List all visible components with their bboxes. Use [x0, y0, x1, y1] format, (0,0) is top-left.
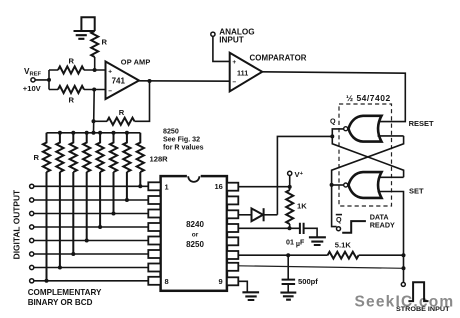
terminal output 7	[30, 265, 34, 269]
label 8250 See Fig. 32 for R values	[163, 128, 204, 152]
node	[402, 253, 406, 257]
resistor R4 feedback	[107, 108, 135, 125]
resistor 1K	[286, 190, 307, 224]
wire Qbar to terminal	[332, 185, 337, 227]
resistor ladder R8	[137, 133, 144, 187]
svg-text:V+: V+	[295, 170, 304, 179]
node	[138, 184, 142, 188]
ground	[242, 292, 259, 300]
node	[98, 225, 102, 229]
NOR gate G1	[344, 116, 382, 142]
node	[125, 198, 129, 202]
svg-text:SeekIC.com: SeekIC.com	[355, 293, 455, 310]
wire cross-coupling Qbar to G1	[332, 136, 404, 185]
resistor ladder R4	[83, 133, 90, 241]
wire	[94, 57, 96, 70]
wire Qbar output	[332, 184, 344, 186]
svg-text:+: +	[232, 59, 236, 66]
resistor R3	[58, 86, 84, 105]
wire pin to 5.1K	[238, 254, 327, 256]
wire pin to 1K bottom	[238, 227, 300, 229]
node	[98, 131, 102, 135]
wire	[93, 90, 96, 133]
svg-text:−: −	[108, 88, 112, 95]
node	[288, 185, 292, 189]
svg-text:5.1K: 5.1K	[335, 241, 352, 250]
svg-text:Q: Q	[336, 215, 342, 224]
wire	[34, 213, 148, 215]
node	[125, 131, 129, 135]
diode D1	[238, 208, 277, 221]
wire	[135, 81, 150, 121]
node	[58, 131, 62, 135]
wire Q to diode branch	[277, 136, 332, 214]
wire Q output	[332, 129, 343, 137]
wire pin16 to V+	[238, 186, 289, 188]
node	[112, 131, 116, 135]
terminal Qbar	[336, 215, 342, 231]
node	[71, 252, 75, 256]
terminal output 6	[30, 252, 34, 256]
wire pin to strobe node	[238, 266, 403, 269]
svg-text:DIGITAL OUTPUT: DIGITAL OUTPUT	[11, 189, 21, 259]
IC U2 8240/8250	[148, 174, 238, 290]
latch dashed box	[339, 104, 392, 206]
terminal STROBE INPUT	[401, 282, 405, 286]
comparator U3 111	[230, 53, 307, 92]
svg-text:VREF: VREF	[24, 67, 42, 78]
wire	[238, 281, 247, 291]
svg-text:SET: SET	[409, 187, 424, 196]
svg-text:R: R	[102, 38, 108, 47]
wire	[35, 70, 58, 90]
terminal output 2	[30, 198, 34, 202]
wire	[34, 267, 148, 269]
node	[288, 226, 292, 230]
node Q	[330, 134, 334, 138]
waveform strobe pulse	[408, 282, 428, 301]
wire	[94, 120, 108, 122]
svg-text:741: 741	[112, 76, 126, 85]
svg-text:COMPARATOR: COMPARATOR	[250, 54, 307, 63]
terminal ANALOG INPUT	[211, 28, 255, 45]
capacitor C1 .01uF	[286, 223, 317, 248]
wire	[34, 253, 148, 255]
node	[58, 266, 62, 270]
wire cross-coupling Q to G2	[332, 136, 403, 177]
svg-text:500pf: 500pf	[298, 277, 318, 286]
resistor ladder R5	[97, 133, 104, 227]
svg-text:128R: 128R	[150, 155, 169, 164]
node	[45, 279, 49, 283]
resistor ladder R6	[110, 133, 117, 214]
label COMPLEMENTARY BINARY OR BCD	[28, 288, 102, 307]
node	[71, 131, 75, 135]
svg-text:111: 111	[237, 68, 248, 77]
svg-text:8250: 8250	[163, 128, 179, 136]
node	[286, 253, 290, 257]
terminal output 1	[30, 184, 34, 188]
node	[47, 78, 51, 82]
svg-text:8240: 8240	[186, 220, 204, 229]
resistor 5.1K	[328, 241, 359, 259]
node	[85, 131, 89, 135]
terminal output 4	[30, 225, 34, 229]
svg-text:R: R	[34, 153, 40, 162]
waveform DATA READY	[342, 221, 366, 233]
wire	[84, 70, 106, 90]
wire	[213, 36, 230, 61]
wire comparator output to RESET	[262, 72, 405, 122]
terminal V+	[288, 170, 304, 179]
node	[148, 79, 152, 83]
svg-text:or: or	[192, 232, 199, 239]
wire	[289, 224, 291, 228]
svg-text:½ 54/7402: ½ 54/7402	[346, 93, 391, 103]
NOR gate G2	[344, 172, 382, 198]
terminal output 5	[30, 238, 34, 242]
svg-text:01 µF: 01 µF	[286, 238, 305, 248]
wire	[359, 254, 404, 256]
svg-text:See Fig. 32: See Fig. 32	[163, 136, 200, 144]
node	[92, 88, 96, 92]
wire	[34, 280, 148, 282]
svg-text:for R values: for R values	[163, 144, 204, 152]
svg-text:COMPLEMENTARY: COMPLEMENTARY	[28, 288, 102, 297]
svg-text:RESET: RESET	[409, 119, 434, 128]
node	[93, 68, 97, 72]
svg-text:INPUT: INPUT	[219, 35, 244, 44]
wire	[139, 80, 230, 82]
node	[85, 239, 89, 243]
op-amp U1 741	[106, 57, 151, 99]
svg-text:−: −	[232, 79, 236, 86]
svg-text:R: R	[69, 96, 75, 105]
svg-text:R: R	[69, 57, 75, 66]
terminal VREF	[23, 67, 42, 93]
label DATA READY	[370, 212, 395, 229]
wire	[34, 185, 148, 187]
wire SET input	[378, 192, 404, 283]
terminal output 3	[30, 211, 34, 215]
terminal output 8	[30, 279, 34, 283]
svg-text:READY: READY	[370, 220, 395, 229]
svg-text:8250: 8250	[186, 240, 204, 249]
svg-text:BINARY OR BCD: BINARY OR BCD	[28, 298, 93, 307]
resistor ladder R7	[123, 133, 130, 200]
resistor R1	[91, 31, 107, 57]
ground	[280, 293, 296, 300]
resistor ladder R2	[56, 133, 63, 268]
wire	[34, 226, 148, 228]
node	[402, 266, 406, 270]
wire ladder bus	[47, 132, 141, 134]
resistor ladder R3	[70, 133, 77, 254]
svg-text:+10V: +10V	[23, 84, 42, 93]
svg-text:9: 9	[219, 277, 223, 286]
node	[92, 131, 96, 135]
svg-text:8: 8	[165, 277, 169, 286]
capacitor C2 500pf	[282, 255, 319, 292]
resistor ladder R1	[43, 133, 50, 281]
node	[112, 212, 116, 216]
wire	[34, 199, 148, 201]
resistor R2	[58, 57, 84, 74]
ground	[309, 237, 326, 245]
svg-text:OP AMP: OP AMP	[121, 57, 151, 66]
svg-text:R: R	[119, 108, 125, 117]
wire	[34, 240, 148, 242]
svg-text:+: +	[108, 69, 112, 76]
svg-text:16: 16	[215, 182, 223, 191]
node	[92, 119, 96, 123]
svg-text:1: 1	[165, 183, 169, 192]
node Qbar	[330, 183, 334, 187]
ground	[74, 17, 95, 39]
wire	[289, 176, 291, 191]
svg-text:1K: 1K	[297, 202, 307, 211]
svg-text:Q: Q	[330, 117, 336, 126]
